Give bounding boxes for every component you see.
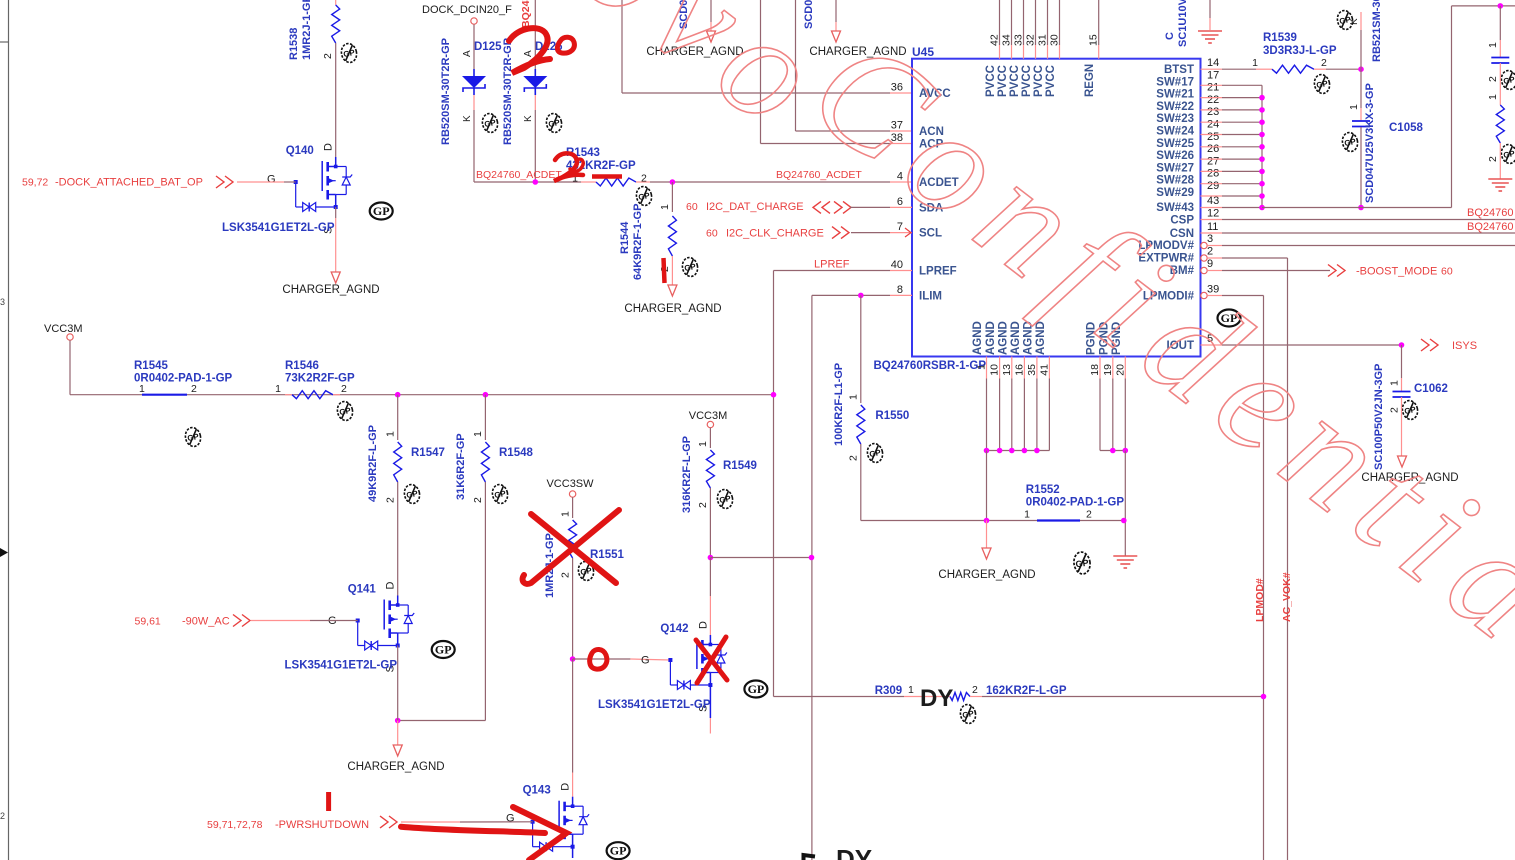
svg-text:K: K — [523, 115, 534, 122]
svg-text:1: 1 — [1348, 104, 1360, 110]
svg-text:2: 2 — [559, 572, 571, 578]
svg-text:16: 16 — [1013, 364, 1025, 376]
svg-text:I2C_DAT_CHARGE: I2C_DAT_CHARGE — [706, 201, 804, 213]
svg-text:59,72: 59,72 — [22, 177, 48, 189]
svg-text:ISYS: ISYS — [1452, 340, 1477, 352]
svg-text:G: G — [267, 174, 276, 186]
svg-text:13: 13 — [1001, 364, 1013, 376]
svg-text:VCC3SW: VCC3SW — [546, 478, 594, 490]
svg-text:VCC3M: VCC3M — [689, 410, 728, 422]
svg-text:PVCC: PVCC — [1033, 65, 1045, 97]
svg-text:29: 29 — [1207, 180, 1219, 192]
svg-text:1: 1 — [559, 511, 571, 517]
svg-text:2: 2 — [472, 497, 484, 503]
svg-text:AC_VOK#: AC_VOK# — [1281, 572, 1293, 622]
svg-text:GP: GP — [1503, 149, 1515, 160]
svg-text:AGND: AGND — [997, 321, 1009, 355]
svg-text:2: 2 — [384, 497, 396, 503]
svg-text:SC1U10V: SC1U10V — [1177, 0, 1189, 47]
svg-text:R1546: R1546 — [285, 360, 319, 372]
svg-text:1: 1 — [1252, 57, 1258, 69]
svg-text:34: 34 — [1001, 34, 1013, 46]
svg-text:RB520SM-30T2R-GP: RB520SM-30T2R-GP — [440, 38, 452, 145]
svg-text:C1058: C1058 — [1389, 122, 1423, 134]
svg-text:1: 1 — [1487, 94, 1499, 100]
svg-text:PVCC: PVCC — [1009, 65, 1021, 97]
svg-text:R1551: R1551 — [590, 549, 624, 561]
svg-text:2: 2 — [1487, 156, 1499, 162]
svg-text:1: 1 — [1024, 509, 1030, 521]
svg-text:D: D — [385, 582, 397, 590]
svg-text:SW#25: SW#25 — [1156, 138, 1194, 150]
svg-text:11: 11 — [1207, 221, 1218, 233]
svg-text:GP: GP — [548, 118, 562, 129]
svg-text:PVCC: PVCC — [1021, 65, 1033, 97]
svg-text:LSK3541G1ET2L-GP: LSK3541G1ET2L-GP — [598, 699, 711, 711]
svg-text:GP: GP — [406, 489, 420, 500]
svg-text:-PWRSHUTDOWN: -PWRSHUTDOWN — [275, 819, 369, 831]
svg-text:LPMOD#: LPMOD# — [1254, 578, 1266, 622]
svg-text:DY: DY — [920, 685, 953, 712]
svg-text:GP: GP — [684, 262, 698, 273]
svg-text:GP: GP — [187, 432, 201, 443]
svg-text:1: 1 — [139, 383, 145, 395]
svg-text:23: 23 — [1207, 106, 1219, 118]
svg-text:VCC3M: VCC3M — [44, 323, 83, 335]
svg-text:R1544: R1544 — [619, 221, 631, 254]
svg-text:2: 2 — [972, 684, 978, 696]
svg-text:25: 25 — [1207, 131, 1219, 143]
svg-text:GP: GP — [869, 448, 883, 459]
svg-text:14: 14 — [1207, 57, 1219, 69]
svg-text:GP: GP — [638, 191, 652, 202]
svg-text:10: 10 — [989, 364, 1001, 376]
svg-text:2: 2 — [641, 173, 647, 185]
svg-text:R1538: R1538 — [288, 28, 300, 60]
svg-text:1: 1 — [976, 364, 988, 370]
svg-text:3: 3 — [1207, 233, 1213, 245]
svg-text:SW#43: SW#43 — [1156, 202, 1194, 214]
svg-text:42: 42 — [989, 34, 1001, 46]
svg-text:BQ24760: BQ24760 — [1467, 221, 1513, 233]
svg-text:2: 2 — [697, 502, 709, 508]
svg-text:A: A — [523, 50, 534, 57]
svg-text:CSP: CSP — [1170, 215, 1194, 227]
svg-text:1: 1 — [1487, 42, 1499, 48]
svg-text:1: 1 — [848, 394, 860, 400]
svg-text:32: 32 — [1025, 34, 1037, 46]
svg-text:GP: GP — [1075, 558, 1089, 570]
svg-text:-BOOST_MODE: -BOOST_MODE — [1356, 266, 1437, 278]
svg-text:R1552: R1552 — [1026, 484, 1060, 496]
svg-text:GP: GP — [339, 406, 353, 417]
svg-text:2: 2 — [848, 455, 860, 461]
svg-text:GP: GP — [343, 48, 357, 59]
svg-text:SW#24: SW#24 — [1156, 126, 1194, 138]
svg-text:59,61: 59,61 — [135, 616, 161, 628]
svg-text:0R0402-PAD-1-GP: 0R0402-PAD-1-GP — [1026, 497, 1125, 509]
svg-text:SW#29: SW#29 — [1156, 187, 1194, 199]
svg-text:AGND: AGND — [1010, 321, 1022, 355]
svg-text:R1539: R1539 — [1263, 32, 1297, 44]
svg-text:GP: GP — [435, 643, 452, 657]
svg-text:GP: GP — [494, 489, 508, 500]
svg-text:GP: GP — [962, 709, 976, 720]
svg-text:3D3R3J-L-GP: 3D3R3J-L-GP — [1263, 45, 1337, 57]
svg-text:40: 40 — [891, 259, 903, 271]
svg-text:BTST: BTST — [1164, 64, 1194, 76]
svg-text:CHARGER_AGND: CHARGER_AGND — [624, 303, 721, 315]
svg-text:35: 35 — [1026, 364, 1038, 376]
svg-text:64K9R2F-1-GP: 64K9R2F-1-GP — [632, 204, 644, 280]
svg-text:BQ24760_ACDET: BQ24760_ACDET — [476, 169, 562, 181]
svg-text:1: 1 — [908, 684, 914, 696]
svg-text:31K6R2F-GP: 31K6R2F-GP — [455, 433, 467, 500]
svg-text:43: 43 — [1207, 195, 1219, 207]
svg-text:12: 12 — [1207, 208, 1219, 220]
svg-text:R1548: R1548 — [499, 447, 533, 459]
svg-text:D125: D125 — [474, 41, 502, 53]
svg-text:BQ2476: BQ2476 — [520, 0, 532, 28]
svg-text:AGND: AGND — [972, 321, 984, 355]
svg-text:-90W_AC: -90W_AC — [182, 616, 230, 628]
svg-text:CHARGER_AGND: CHARGER_AGND — [347, 761, 444, 773]
svg-text:GP: GP — [719, 494, 733, 505]
svg-text:22: 22 — [1207, 94, 1219, 106]
svg-text:GP: GP — [373, 204, 390, 218]
svg-text:SW#27: SW#27 — [1156, 162, 1194, 174]
svg-text:60: 60 — [686, 201, 698, 213]
svg-text:1: 1 — [384, 431, 396, 437]
svg-text:SW#26: SW#26 — [1156, 150, 1194, 162]
svg-text:3: 3 — [0, 297, 5, 307]
svg-text:LSK3541G1ET2L-GP: LSK3541G1ET2L-GP — [222, 222, 335, 234]
svg-text:1: 1 — [1389, 380, 1401, 386]
svg-text:Q140: Q140 — [286, 145, 314, 157]
svg-text:33: 33 — [1013, 34, 1025, 46]
svg-text:GP: GP — [748, 682, 765, 696]
svg-text:-DOCK_ATTACHED_BAT_OP: -DOCK_ATTACHED_BAT_OP — [55, 177, 203, 189]
svg-text:2: 2 — [1086, 509, 1092, 521]
svg-text:Q142: Q142 — [660, 623, 688, 635]
svg-text:1: 1 — [659, 204, 671, 210]
svg-text:24: 24 — [1207, 119, 1219, 131]
svg-text:CHARGER_AGND: CHARGER_AGND — [282, 284, 379, 296]
svg-text:BQ24760RSBR-1-GP: BQ24760RSBR-1-GP — [874, 360, 987, 372]
svg-text:2: 2 — [341, 383, 347, 395]
svg-text:Lenovo: Lenovo — [328, 0, 862, 167]
svg-text:A: A — [462, 50, 473, 57]
svg-text:31: 31 — [1037, 34, 1049, 46]
svg-text:ILIM: ILIM — [919, 291, 942, 303]
svg-text:8: 8 — [897, 284, 903, 296]
svg-text:49K9R2F-L-GP: 49K9R2F-L-GP — [367, 425, 379, 502]
svg-text:SW#23: SW#23 — [1156, 113, 1194, 125]
svg-text:R1547: R1547 — [411, 447, 445, 459]
svg-text:30: 30 — [1049, 34, 1061, 46]
svg-text:GP: GP — [1316, 79, 1330, 90]
svg-text:DY: DY — [836, 844, 872, 860]
svg-text:316KR2F-L-GP: 316KR2F-L-GP — [681, 436, 693, 513]
svg-text:CHARGER_AGND: CHARGER_AGND — [938, 569, 1035, 581]
svg-text:D: D — [323, 143, 335, 151]
svg-text:R1550: R1550 — [875, 410, 909, 422]
svg-text:17: 17 — [1207, 69, 1219, 81]
svg-text:R1545: R1545 — [134, 360, 168, 372]
svg-text:BQ24760: BQ24760 — [1467, 207, 1513, 219]
svg-text:C1062: C1062 — [1414, 383, 1448, 395]
svg-text:100KR2F-L1-GP: 100KR2F-L1-GP — [833, 363, 845, 446]
svg-text:59,71,72,78: 59,71,72,78 — [207, 819, 263, 831]
svg-text:LPREF: LPREF — [814, 259, 850, 271]
svg-text:D: D — [697, 621, 709, 629]
svg-text:60: 60 — [706, 228, 718, 240]
svg-text:26: 26 — [1207, 143, 1219, 155]
svg-text:28: 28 — [1207, 168, 1219, 180]
svg-text:2: 2 — [322, 53, 334, 59]
svg-text:GP: GP — [484, 118, 498, 129]
svg-text:R1549: R1549 — [723, 460, 757, 472]
svg-text:LPREF: LPREF — [919, 266, 957, 278]
svg-text:2: 2 — [1487, 76, 1499, 82]
svg-text:PVCC: PVCC — [1045, 65, 1057, 97]
svg-text:162KR2F-L-GP: 162KR2F-L-GP — [986, 685, 1067, 697]
svg-text:21: 21 — [1207, 82, 1219, 94]
svg-text:GP: GP — [580, 566, 594, 577]
svg-text:2: 2 — [191, 383, 197, 395]
svg-text:GP: GP — [1503, 75, 1515, 86]
svg-text:60: 60 — [1441, 266, 1453, 278]
svg-text:DOCK_DCIN20_F: DOCK_DCIN20_F — [422, 4, 512, 16]
svg-text:0R0402-PAD-1-GP: 0R0402-PAD-1-GP — [134, 373, 233, 385]
svg-text:AGND: AGND — [985, 321, 997, 355]
svg-text:C: C — [1164, 32, 1176, 40]
svg-text:G: G — [506, 813, 515, 825]
svg-text:1: 1 — [697, 441, 709, 447]
svg-text:GP: GP — [610, 844, 627, 858]
svg-text:RB520SM-30T2R-GP: RB520SM-30T2R-GP — [502, 38, 514, 145]
svg-text:1MR2J-1-GP: 1MR2J-1-GP — [301, 0, 313, 60]
svg-text:REGN: REGN — [1084, 64, 1096, 97]
svg-text:D: D — [560, 783, 572, 791]
svg-text:I2C_CLK_CHARGE: I2C_CLK_CHARGE — [726, 228, 824, 240]
svg-text:GP: GP — [1344, 137, 1358, 148]
svg-text:SW#22: SW#22 — [1156, 101, 1194, 113]
svg-text:1: 1 — [472, 431, 484, 437]
svg-text:41: 41 — [1038, 364, 1050, 376]
svg-text:SCD047U25V3KX-3-GP: SCD047U25V3KX-3-GP — [1364, 83, 1376, 203]
svg-text:Q143: Q143 — [523, 785, 551, 797]
svg-text:1: 1 — [275, 383, 281, 395]
svg-text:2: 2 — [1321, 57, 1327, 69]
svg-text:2: 2 — [0, 811, 5, 821]
svg-text:27: 27 — [1207, 155, 1219, 167]
svg-text:LSK3541G1ET2L-GP: LSK3541G1ET2L-GP — [285, 659, 398, 671]
svg-text:SW#17: SW#17 — [1156, 76, 1194, 88]
svg-text:15: 15 — [1088, 34, 1100, 46]
svg-text:Q141: Q141 — [348, 584, 377, 596]
svg-text:SW#28: SW#28 — [1156, 175, 1194, 187]
svg-text:G: G — [641, 655, 650, 667]
svg-text:RB521SM-30: RB521SM-30 — [1371, 0, 1383, 62]
svg-text:SW#21: SW#21 — [1156, 89, 1194, 101]
svg-text:K: K — [462, 115, 473, 122]
svg-text:R309: R309 — [875, 685, 903, 697]
